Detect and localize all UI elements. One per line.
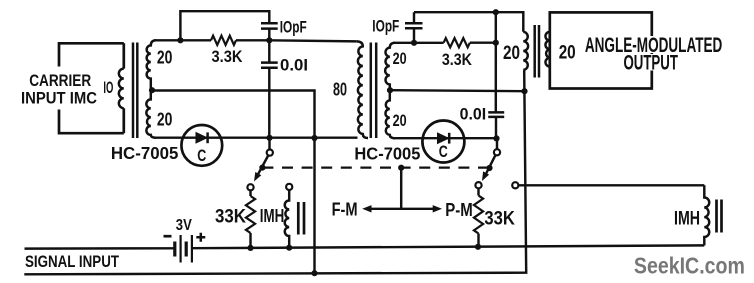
svg-text:P-M: P-M [445, 200, 473, 220]
box: carrier input source [59, 43, 124, 133]
node C3 junction [411, 40, 417, 46]
wire top rail with riser [180, 11, 269, 40]
svg-text:CARRIER: CARRIER [29, 72, 91, 90]
label ANGLE-MODULATED OUTPUT [586, 36, 723, 53]
node R3 junction [493, 40, 499, 46]
output transformer left coil 20 [523, 32, 528, 70]
switch S1 top contact [267, 150, 273, 156]
inductor L1 core [298, 202, 304, 235]
svg-text:20: 20 [559, 43, 576, 64]
switch S2 top contact [494, 149, 500, 155]
svg-text:80: 80 [333, 80, 347, 100]
capacitor C3 10pF [405, 23, 423, 28]
node R2 bottom [247, 245, 253, 251]
svg-text:20: 20 [393, 49, 407, 68]
svg-text:3V: 3V [176, 217, 192, 234]
selector stem [400, 168, 402, 209]
diode D1 circle [181, 125, 222, 166]
svg-text:HC-7005: HC-7005 [111, 143, 179, 163]
transformer T1 secondary upper coil 20 [147, 40, 156, 90]
node mid-tap T1 [149, 87, 155, 93]
box: angle-modulated output [550, 12, 652, 88]
inductor L2 core [717, 200, 722, 233]
transformer T1 core [133, 43, 137, 139]
svg-text:IOpF: IOpF [372, 18, 399, 36]
inductor L1 1MH [285, 190, 289, 248]
svg-text:SIGNAL INPUT: SIGNAL INPUT [25, 252, 119, 271]
switch S1 arm [257, 156, 268, 176]
wire contact to L2 [518, 184, 704, 186]
node row1 switch [266, 135, 272, 141]
svg-text:IOpF: IOpF [280, 18, 307, 36]
capacitor C1 10pF [261, 23, 278, 28]
selector arrow F-M P-M [371, 208, 434, 210]
node L1 bottom [286, 245, 292, 251]
switch S1 stem [268, 138, 270, 150]
node row1 vertical [311, 135, 317, 141]
svg-text:C: C [197, 146, 206, 165]
node R4 bottom [475, 244, 481, 250]
capacitor C2 0.01 [268, 40, 270, 62]
battery B1 3V [173, 242, 176, 257]
wire T2 mid-tap [390, 90, 525, 91]
inductor L1 top contact [286, 184, 292, 190]
node link center [398, 165, 404, 171]
diode D2 circle [422, 121, 464, 163]
node junction top [177, 37, 183, 43]
diode D2 symbol [438, 133, 449, 143]
transformer T2 secondary lower coil 20 [385, 90, 395, 138]
inductor L2 1MH [704, 185, 709, 245]
svg-text:F-M: F-M [332, 199, 358, 219]
resistor R1 3.3K [180, 39, 211, 41]
switch S2 stem [496, 138, 498, 149]
switch S1 bottom contact [247, 184, 253, 190]
output transformer right coil 20 [545, 32, 549, 67]
svg-text:0.0I: 0.0I [460, 104, 487, 123]
svg-text:OUTPUT: OUTPUT [623, 51, 678, 75]
node link arm1 [259, 165, 265, 171]
resistor R4 33K [477, 188, 479, 195]
switch S2 bottom contact [475, 182, 481, 188]
svg-text:20: 20 [393, 111, 407, 130]
svg-text:0.0I: 0.0I [280, 55, 308, 74]
node top rail 2 [493, 9, 499, 15]
switch S2 arm [485, 155, 495, 175]
transformer T1 secondary lower coil 20 [146, 91, 156, 138]
svg-text:20: 20 [503, 43, 520, 64]
svg-text:SeekIC.com: SeekIC.com [634, 252, 745, 278]
svg-text:IO: IO [103, 78, 113, 97]
transformer T2 core [371, 43, 376, 139]
transformer T2 secondary upper coil 20 [385, 43, 395, 90]
svg-text:C: C [439, 142, 448, 161]
svg-text:20: 20 [157, 48, 173, 68]
svg-text:3.3K: 3.3K [442, 50, 473, 69]
node row2 switch [493, 135, 499, 141]
resistor R3 3.3K [444, 38, 470, 47]
wire bottom rail to output [24, 70, 526, 274]
wire diode row 1 [154, 136, 358, 138]
node link arm2 [486, 165, 492, 171]
label plus [196, 233, 205, 242]
transformer T2 primary coil 80 [357, 41, 368, 138]
wire T2 top to cap [393, 42, 444, 44]
svg-text:33K: 33K [215, 207, 246, 228]
svg-text:HC-7005: HC-7005 [354, 143, 420, 163]
wire diode row 2 [393, 137, 496, 139]
svg-text:33K: 33K [484, 208, 515, 229]
svg-text:IMH: IMH [674, 208, 700, 229]
capacitor C4 0.01 with vertical [495, 12, 497, 112]
contact to output inductor [512, 182, 518, 188]
resistor R2 33K [249, 190, 251, 196]
svg-text:INPUT IMC: INPUT IMC [21, 90, 97, 108]
node bottom rail tie [311, 270, 317, 276]
dashed mechanical link [262, 167, 489, 169]
output transformer core [535, 25, 539, 78]
diode D1 symbol [196, 133, 207, 143]
wire top rail 2 [414, 12, 523, 32]
transformer T1 primary coil [119, 69, 124, 109]
wire T1 mid-tap to bottom rail [152, 91, 315, 274]
wire signal rail [25, 245, 705, 248]
svg-text:20: 20 [157, 109, 173, 129]
node T2 mid-tap [387, 87, 393, 93]
label minus [164, 235, 172, 238]
svg-text:IMH: IMH [260, 206, 285, 226]
wire stage1 to T2 [269, 40, 357, 41]
svg-text:3.3K: 3.3K [212, 47, 244, 66]
node junction cap [266, 37, 272, 43]
wire secondary top [154, 39, 180, 41]
node mid-tap right [521, 88, 527, 94]
